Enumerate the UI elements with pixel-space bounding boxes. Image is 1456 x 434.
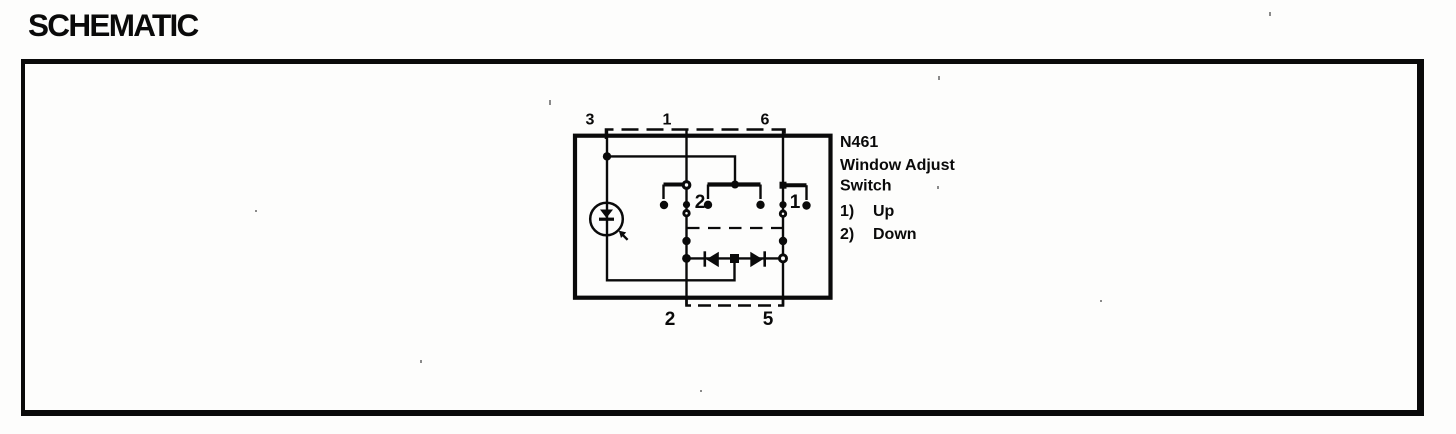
svg-text:N461: N461	[840, 134, 878, 151]
lamp L1 cathode bar	[599, 218, 614, 221]
svg-text:Switch: Switch	[840, 178, 892, 195]
lamp L1 circle	[590, 203, 623, 236]
svg-text:2: 2	[665, 309, 676, 330]
contact dot on pin1 wire	[683, 201, 690, 208]
contact dot center-left	[704, 201, 712, 209]
lamp L1 illumination arrow	[623, 235, 628, 240]
pivot circle on pin1 wire	[683, 182, 690, 189]
junction dot pin6/dashed	[779, 237, 787, 245]
connector (bottom) dashed outline	[687, 297, 784, 306]
wire feed to center rocker	[607, 156, 735, 183]
diode D2 triangle (points right)	[750, 252, 763, 267]
wire pin 3 vertical	[606, 130, 608, 203]
contact dot right	[802, 201, 810, 209]
rocker right stub	[805, 185, 807, 200]
wire pin 1 lower vertical	[685, 189, 687, 306]
wire pin 1 vertical	[685, 130, 687, 182]
diode D1 triangle (points left)	[706, 252, 719, 267]
svg-text:5: 5	[763, 309, 774, 330]
wire lamp bottom to diode junction	[607, 235, 735, 280]
rocker center left stub	[707, 185, 709, 200]
diode D2 cathode bar	[763, 251, 766, 266]
svg-text:1): 1)	[840, 203, 854, 220]
rocker bridge center bar	[708, 182, 761, 186]
title SCHEMATIC	[28, 7, 198, 44]
contact circle on pin1 wire	[684, 211, 689, 216]
svg-text:Window Adjust: Window Adjust	[840, 157, 955, 174]
svg-text:6: 6	[761, 112, 770, 129]
diode D1 cathode bar	[703, 251, 706, 266]
node junction on pin3 wire	[603, 152, 611, 160]
contact dot center-right	[756, 201, 764, 209]
junction dot diode row left	[682, 254, 691, 263]
wire pin 5 lower vertical	[782, 263, 784, 306]
connector (top) dashed outline	[606, 130, 785, 140]
rocker center right stub	[759, 185, 761, 200]
rocker bridge right pivot dot	[780, 182, 787, 189]
lamp L1 wire through	[606, 203, 608, 236]
svg-text:2): 2)	[840, 226, 854, 243]
svg-text:2: 2	[695, 192, 706, 213]
connector (bottom) dashed top edge	[687, 227, 783, 229]
svg-text:1: 1	[663, 112, 672, 129]
contact circle on pin6 wire	[780, 211, 785, 216]
contact dot on pin6 wire	[779, 201, 786, 208]
rocker bridge right (pin6) bar	[783, 183, 807, 187]
lamp L1 LED triangle	[600, 210, 613, 219]
junction dot between diodes	[730, 254, 739, 263]
svg-text:Up: Up	[873, 203, 895, 220]
junction dot pin1/diode row	[682, 237, 690, 245]
switch body box N461	[575, 136, 831, 298]
contact dot left	[660, 201, 668, 209]
svg-text:1: 1	[790, 192, 801, 213]
diode row wire	[687, 257, 780, 259]
svg-text:Down: Down	[873, 226, 917, 243]
rocker bridge left (pin1) bar	[664, 183, 688, 187]
rocker bridge left stub	[662, 185, 664, 200]
rocker bridge center pivot dot	[731, 181, 739, 189]
wire pin 6 vertical	[782, 130, 784, 255]
svg-text:3: 3	[586, 112, 595, 129]
open circle diode row right (pin 5)	[780, 255, 787, 262]
